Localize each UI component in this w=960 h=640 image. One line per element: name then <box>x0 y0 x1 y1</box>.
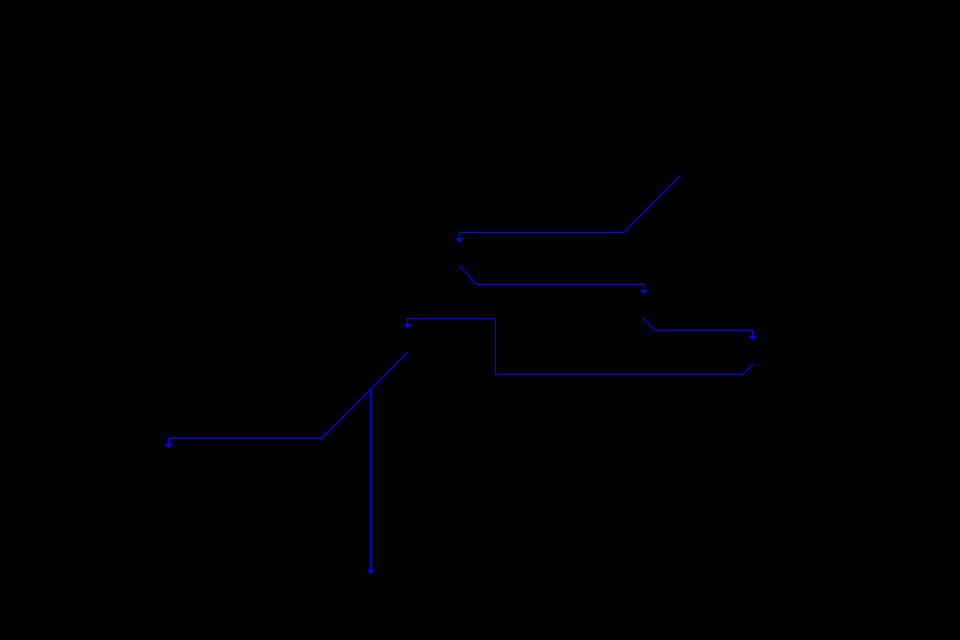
arrowhead into node C <box>640 290 647 294</box>
wire edge E to F <box>169 352 409 444</box>
arrowhead into node G <box>367 570 374 574</box>
wire edge B to C <box>459 266 643 290</box>
arrowhead into node F <box>165 444 172 448</box>
wire edge A to B <box>459 175 680 238</box>
wire edge D to E <box>408 319 753 375</box>
arrowhead into node D <box>749 336 756 340</box>
arrowhead into node B <box>456 238 464 242</box>
wire edge C to D <box>643 318 752 336</box>
wire edge E to G <box>370 389 372 570</box>
arrowhead into node E <box>404 324 411 328</box>
